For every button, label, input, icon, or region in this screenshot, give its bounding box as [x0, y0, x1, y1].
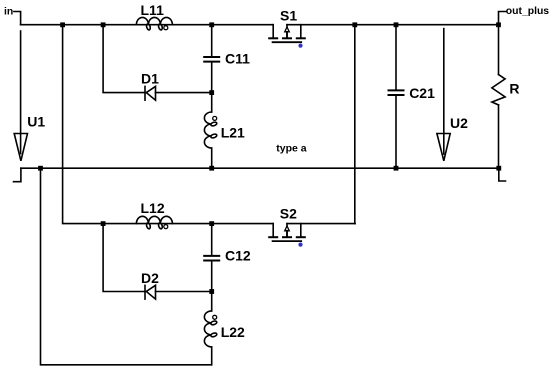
signal port S1 gate (blue dot): [298, 44, 302, 48]
junction top rail / D1 branch: [101, 22, 106, 27]
svg-text:U1: U1: [27, 114, 45, 130]
junction middle rail / L21: [209, 166, 214, 171]
wire branch down to second cell rail: [63, 25, 274, 224]
svg-text:C12: C12: [225, 247, 251, 263]
junction top rail / R: [496, 22, 501, 27]
inductor L21: [204, 112, 217, 168]
switch S2 (MOSFET): [269, 224, 305, 242]
junction middle rail / C21: [394, 166, 399, 171]
junction middle rail / bottom return: [38, 166, 43, 171]
junction middle rail / R: [496, 166, 501, 171]
svg-text:in: in: [4, 6, 13, 17]
wire S1/S2 outputs tie: [354, 25, 356, 224]
svg-text:D1: D1: [141, 71, 159, 87]
voltage arrow U1: [14, 31, 27, 161]
junction top rail / C11: [209, 22, 214, 27]
svg-text:S2: S2: [280, 205, 297, 221]
junction S1 output: [352, 22, 357, 27]
svg-text:C21: C21: [409, 85, 435, 101]
wire middle rail: [21, 167, 499, 169]
node out-minus terminal stub: [499, 168, 506, 181]
svg-text:L11: L11: [141, 2, 165, 18]
junction rail2 / C12: [209, 221, 214, 226]
node in (terminal stub): [14, 12, 21, 25]
node out_plus (terminal stub): [499, 12, 507, 25]
junction D1/C11/L21 node: [209, 90, 214, 95]
diode D2: [145, 285, 212, 299]
capacitor C21: [389, 25, 404, 169]
svg-text:L12: L12: [141, 200, 165, 216]
wire rail2 right (S2 to tie point): [287, 223, 355, 225]
inductor L11: [136, 17, 172, 30]
svg-text:out_plus: out_plus: [506, 6, 550, 17]
voltage arrow U2: [437, 29, 450, 161]
wire top rail left (in to S1 drain): [21, 24, 274, 26]
wire D2 left branch: [103, 224, 145, 292]
svg-text:L22: L22: [221, 324, 245, 340]
svg-text:S1: S1: [280, 8, 297, 24]
node minus-in terminal stub: [14, 168, 21, 182]
diode D1: [145, 86, 212, 100]
inductor L12: [136, 216, 172, 229]
switch S1 (MOSFET): [269, 25, 305, 43]
junction top rail / C21: [394, 22, 399, 27]
signal port S2 gate (blue dot): [298, 243, 302, 247]
junction rail2 / D2 branch: [101, 221, 106, 226]
wire bottom return (left): [41, 168, 212, 365]
svg-text:C11: C11: [225, 51, 250, 67]
svg-text:type a: type a: [276, 142, 307, 154]
svg-text:L21: L21: [221, 124, 245, 140]
svg-text:U2: U2: [450, 115, 468, 131]
wire D1 left branch: [103, 25, 145, 93]
resistor R: [492, 25, 505, 169]
junction top rail / branch to L12: [60, 22, 65, 27]
capacitor C12: [204, 224, 219, 311]
svg-text:D2: D2: [141, 270, 159, 286]
capacitor C11: [204, 25, 219, 112]
wire top rail right (S1 to out_plus): [287, 24, 499, 26]
junction D2/C12/L22 node: [209, 289, 214, 294]
inductor L22: [204, 311, 217, 365]
svg-text:R: R: [509, 81, 519, 97]
